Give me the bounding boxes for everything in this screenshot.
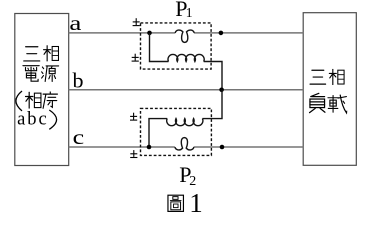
polarity mark P1 current coil [133,18,140,25]
voltage coil P2 [167,119,203,126]
svg-text:b: b [73,69,84,93]
svg-text:abc: abc [17,109,49,129]
polarity mark P1 voltage coil [132,54,139,61]
dot on line c (right) [220,145,225,150]
source box text line 3: （相序 [16,91,22,111]
svg-text:c: c [73,125,85,149]
svg-text:a: a [69,11,82,35]
wattmeter P1 dashed box [141,23,212,69]
current coil P1 (on line a) [175,30,194,42]
source box text line 2: 電源 [23,66,39,82]
dot on line a (right) [219,31,224,36]
svg-text:1: 1 [189,188,203,218]
source box (three-phase source) [15,14,69,166]
junction dot on line a (left) [147,31,152,36]
load box text line 1: 三相 [310,70,326,84]
node on line b (junction dot) [219,88,224,93]
wire line a [69,32,304,34]
voltage coil P1 [168,54,204,61]
wattmeter P2 dashed box [141,108,212,155]
load box text line 2: 負載 [310,93,325,112]
wire line c [69,146,304,148]
source box text line 1: 三相 [24,47,40,61]
polarity mark P2 voltage coil [130,113,137,120]
current coil P2 (on line c) [175,138,194,150]
wire from node on line b down to P2 voltage coil [202,90,222,119]
svg-text:2: 2 [189,174,196,189]
wire from P2 voltage coil down to line c [149,119,167,147]
wire line b [69,89,304,91]
svg-text:1: 1 [186,6,193,21]
polarity mark P2 current coil [130,150,137,157]
junction dot on line c (left) [147,145,152,150]
wire from P1 voltage coil to node on line b [204,62,222,90]
load box (three-phase load) [303,13,356,166]
wire from line a down to P1 voltage coil [150,33,169,62]
caption 圖 1 [168,195,183,211]
